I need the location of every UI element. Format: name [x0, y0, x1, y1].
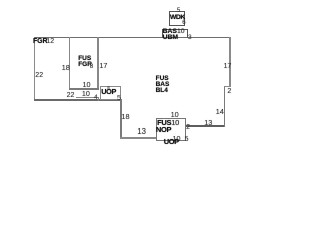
label 17 right wall: [224, 63, 232, 70]
label 12: [46, 38, 54, 45]
wire: inner horizontal H2: [69, 88, 99, 89]
label FUS 10 in bottom box: [157, 119, 179, 127]
label BAS 10: [163, 29, 185, 36]
WDK deck box: [169, 11, 185, 26]
label 10 upper: [83, 81, 91, 88]
label 13 left: [137, 128, 146, 136]
label 17 inner: [99, 62, 107, 69]
label 10 above bottom box: [171, 111, 179, 118]
label 2 at box right: [186, 124, 190, 131]
wire: left wall: [34, 37, 36, 101]
wire: inner vertical V2: [69, 37, 70, 90]
label 8: [90, 64, 93, 70]
label UOP left porch: [101, 88, 116, 95]
label UOP bottom: [164, 138, 179, 146]
wire: lower horizontal to porch box: [120, 137, 157, 139]
label 18 lower wall: [121, 113, 129, 120]
label 22 bottom: [67, 92, 75, 99]
wire: lower-left vertical V6: [120, 99, 122, 138]
label FUS/BAS/BL4 stack: [156, 76, 169, 83]
label 5 at box bottom right: [185, 135, 189, 142]
label 14: [216, 108, 224, 116]
NOP/UOP porch box (bottom): [156, 118, 186, 141]
label 2 right jog: [227, 87, 231, 94]
wire: bottom edge of garage section: [34, 99, 122, 101]
wire: inner horizontal H3: [76, 97, 99, 98]
label FUS/FGR stack: [78, 56, 91, 63]
BAS box: [162, 29, 188, 38]
label FGR (garage): [33, 38, 47, 45]
label 5 at porch corner: [117, 95, 121, 102]
wire: short connector below H3: [98, 97, 99, 101]
label 22 left wall: [35, 72, 43, 79]
label UBM: [163, 35, 178, 42]
label 8 small above UOP: [107, 86, 110, 91]
UOP porch box (left): [100, 86, 121, 100]
label 10 lower: [82, 90, 90, 97]
label 10 in box bottom: [173, 135, 181, 142]
label WDK: [170, 15, 185, 22]
wire: right jog: [224, 86, 231, 87]
wire: inner vertical V3: [97, 37, 98, 90]
label 3: [188, 35, 192, 42]
wire: bottom-right house edge: [186, 125, 225, 126]
wire: upper right wall: [229, 37, 231, 87]
label 6 in WDK: [182, 20, 185, 26]
label NOP: [156, 126, 171, 134]
label 13 right: [204, 119, 212, 126]
label 5 above WDK: [177, 8, 180, 14]
wire: lower right wall: [224, 86, 225, 127]
label 4: [94, 95, 98, 102]
label 18: [62, 64, 70, 72]
wire: main top edge: [34, 37, 231, 38]
